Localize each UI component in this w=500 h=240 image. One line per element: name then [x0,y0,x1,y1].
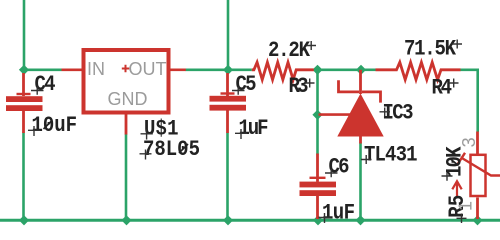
svg-text:10K: 10K [443,146,468,177]
node: junction TL431 ref / C6 [312,110,322,120]
origin cross TL431 [361,155,372,164]
pin OUT of U$1 [171,69,186,72]
wire: TL431 anode down to ground rail [359,143,362,221]
wire: R4 right lead to trimmer top (corner) [460,70,478,132]
label C4 [35,73,56,98]
label R4 [432,76,453,101]
wire: R3 right to TL431 cathode node [314,69,362,72]
label R5 (rotated) [446,195,471,218]
wire: branch from R3 junction down to ref junction and C6 [316,70,319,155]
value TL431 [364,143,418,168]
svg-text:3: 3 [459,137,479,147]
node: rail junction R5 [472,215,482,225]
origin cross IC3 [380,108,391,117]
capacitor C4 [6,73,43,133]
pin polarity + of OUT [122,65,130,73]
label R3 [289,75,309,100]
origin cross 10uF [28,126,40,136]
pin name OUT [129,59,167,79]
wire: input net vertical from top edge down to C4 junction [23,0,26,70]
slash of 0 in 10K [451,159,459,166]
wire: ground rail across bottom [0,219,500,222]
trimmer R5 adjust arrow [452,181,461,196]
svg-text:1uF: 1uF [239,117,269,142]
node: rail junction TL431 anode [355,215,365,225]
wire: C5 junction to R3 left lead [228,69,252,72]
label IC3 [383,101,414,126]
pin name IN [87,59,105,79]
origin cross 78L05 [140,150,152,160]
value 10uF [32,114,78,139]
pin name GND [108,89,148,109]
capacitor C5 [210,73,247,133]
svg-text:GND: GND [108,89,148,109]
value 78L05 [143,138,200,163]
label C6 [329,155,350,180]
svg-text:71.5K: 71.5K [404,37,456,62]
pin number 3 of R5 [459,137,479,147]
wire: C5 bottom lead down to ground rail [226,133,229,221]
node: rail junction U1 GND [121,215,131,225]
wire: input net horizontal to IN pin [24,69,62,72]
origin cross R5 [457,214,467,224]
wire: cathode node to R4 left lead [361,69,376,72]
svg-text:78L05: 78L05 [143,138,200,163]
label U$1 [144,117,179,142]
label C5 [236,73,257,98]
node: junction R3/C6 branch [312,65,322,75]
slash of 0 in 78L05 [179,144,188,153]
origin cross 10K [442,171,453,181]
wire: +5V net vertical from top edge down to OUT junction [227,0,230,70]
value 10K (rotated) [443,146,468,177]
origin cross C4 [31,87,44,95]
svg-text:1uF: 1uF [322,201,355,226]
svg-text:TL431: TL431 [364,143,418,168]
origin cross C5 [232,87,245,95]
pin IN of U$1 [62,69,82,72]
svg-text:R4: R4 [432,76,453,101]
trimmer R5 top lead [476,132,479,157]
slash of 0 in 10uF [44,121,53,130]
node: rail junction C4 [19,215,29,225]
value 2.2K [268,39,310,64]
origin cross 71.5K [453,40,463,49]
origin cross U$1 [141,130,153,140]
node: rail junction C6 [313,215,323,225]
value 71.5K [404,37,456,62]
svg-text:IC3: IC3 [383,101,414,126]
origin cross 1uF C6 [319,213,331,223]
origin cross 1uF C5 [235,129,247,139]
wire: OUT pin to C5 junction [186,69,229,72]
value 1uF of C6 [322,201,355,226]
node: rail junction C5 [223,215,233,225]
origin cross R3 [305,79,315,88]
svg-text:IN: IN [87,59,105,79]
shunt regulator IC3 TL431 [319,70,384,144]
resistor R4 [376,62,461,79]
node: junction TL431 cathode [356,65,366,75]
trimmer R5 bottom lead [476,198,479,220]
value 1uF of C5 [239,117,269,142]
trimmer R5 body [471,155,486,196]
resistor R3 [252,62,314,79]
wire: C4 bottom lead down to ground rail [22,133,25,221]
svg-text:R3: R3 [289,75,309,100]
regulator U$1 78L05 body [84,50,169,113]
node: junction input/C4 [19,65,29,75]
trimmer R5 wiper diagonal and slot bar [457,153,500,176]
origin cross C6 [325,169,338,177]
svg-text:1: 1 [456,201,476,211]
origin cross 2.2K [307,41,317,50]
svg-text:10uF: 10uF [32,114,78,139]
capacitor C6 [300,154,337,220]
origin cross R4 [449,79,459,88]
pin GND of U$1 [125,112,128,135]
svg-text:2.2K: 2.2K [268,39,310,64]
pin number 1 of R5 [456,201,476,211]
node: junction OUT/C5 [223,65,233,75]
wire: U1 GND pin down to ground rail [125,134,128,220]
svg-text:OUT: OUT [129,59,167,79]
